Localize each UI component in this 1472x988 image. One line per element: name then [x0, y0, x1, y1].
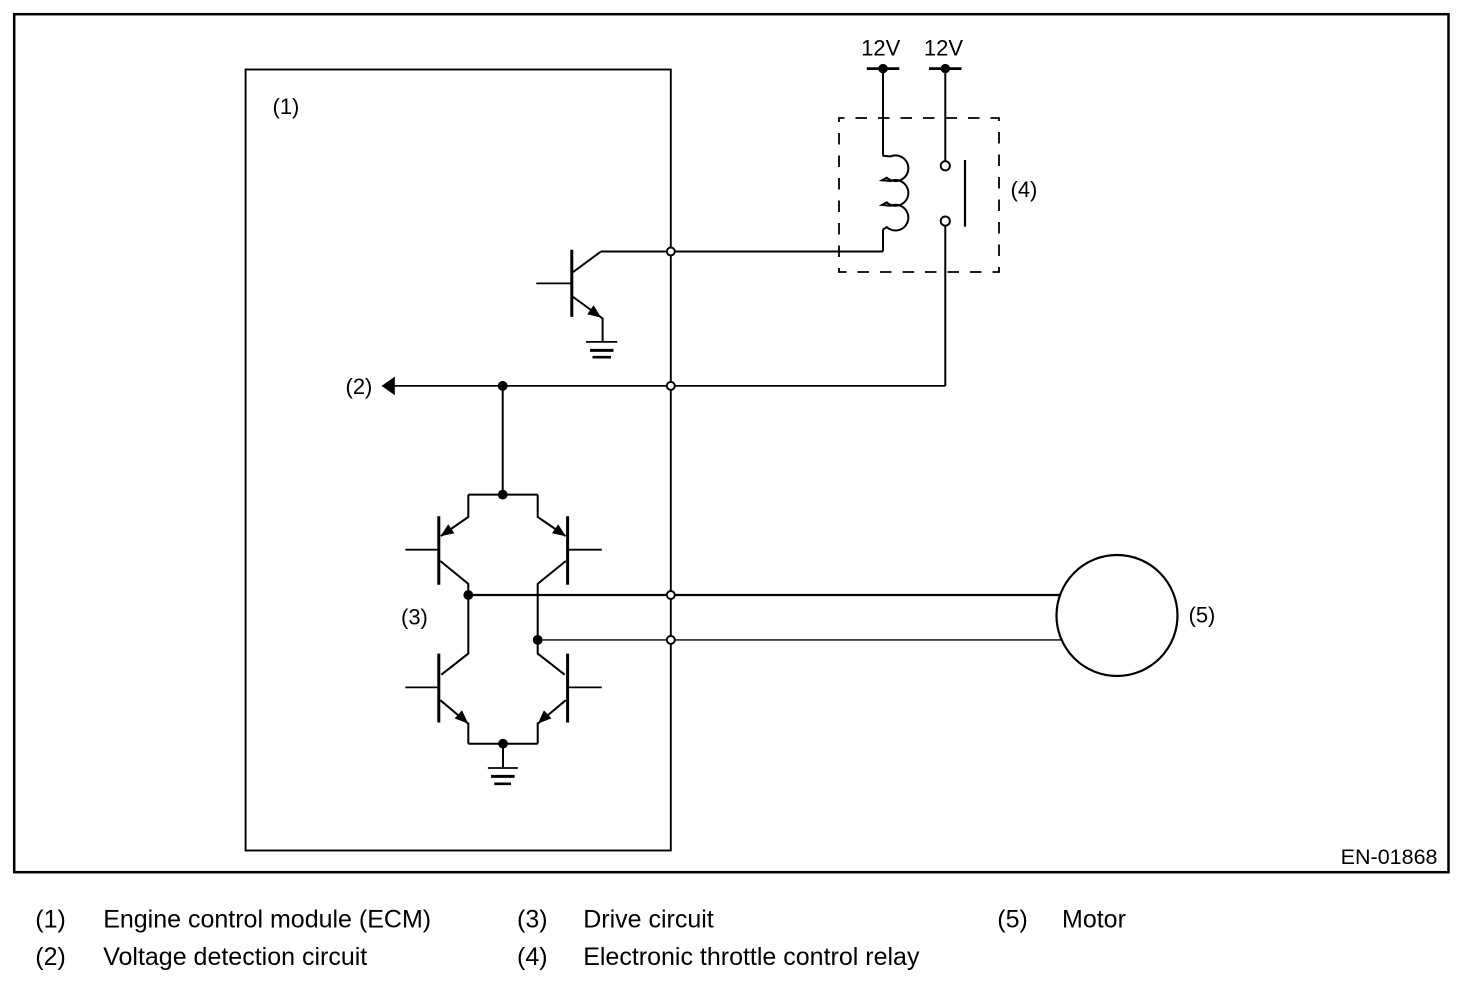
Q3 base wire [569, 549, 602, 551]
ground G2 line 2 [491, 775, 515, 778]
wire (2) horizontal [382, 385, 945, 387]
svg-text:Motor: Motor [1062, 906, 1126, 934]
12V terminal dot B [941, 64, 950, 73]
svg-text:(2): (2) [346, 374, 373, 399]
svg-text:(5): (5) [1189, 603, 1216, 628]
relay switch contact circle bottom [941, 217, 950, 226]
12V terminal dot A [878, 64, 887, 73]
relay switch blade [964, 160, 966, 227]
12V terminal bar A [867, 67, 900, 70]
node circle motor wire 1 on ECM edge [667, 591, 675, 599]
Q2 collector wire [440, 561, 468, 595]
Q5 collector wire [538, 640, 565, 675]
ground G1 line 3 [593, 356, 612, 359]
relay coil L1 [882, 155, 908, 230]
Q5 emitter diagonal [538, 700, 566, 723]
svg-text:(4): (4) [517, 943, 548, 971]
Q1 base wire [536, 282, 570, 284]
12V terminal bar B [929, 67, 962, 70]
Q4 collector wire [441, 595, 468, 675]
motor M circle [1057, 555, 1178, 676]
Q3 emitter wire [538, 495, 566, 536]
Q2 base wire [405, 549, 437, 551]
svg-text:(1): (1) [35, 906, 66, 934]
node circle (2) on ECM edge [667, 382, 675, 390]
node circle motor wire 2 on ECM edge [667, 636, 675, 644]
Q5 bar [566, 654, 569, 723]
junction dot left output [463, 590, 473, 600]
Q3 bar [566, 516, 569, 584]
node circle relay coil on ECM edge [667, 248, 675, 256]
Q1 emitter wire to ground [602, 318, 604, 342]
ECM box (1) [246, 70, 671, 851]
Q3 collector wire [538, 561, 566, 640]
Q4 emitter diagonal [440, 700, 468, 723]
svg-text:(1): (1) [273, 94, 300, 119]
wire coil to transistor collector [601, 251, 883, 253]
transistor Q1 bar [570, 250, 573, 317]
Q1 emitter diagonal [572, 296, 603, 319]
junction dot right output [533, 635, 543, 645]
H-bridge bottom rail [468, 743, 537, 745]
Q2 bar [437, 516, 440, 584]
svg-text:EN-01868: EN-01868 [1341, 845, 1438, 869]
arrow (2) [382, 377, 395, 396]
Q5 base wire [569, 686, 602, 688]
svg-text:12V: 12V [924, 36, 963, 61]
svg-text:Voltage detection circuit: Voltage detection circuit [103, 943, 367, 971]
wire 12V A to relay coil [882, 69, 884, 156]
svg-text:(5): (5) [997, 906, 1028, 934]
svg-text:(3): (3) [401, 605, 428, 630]
svg-text:Drive circuit: Drive circuit [583, 906, 714, 934]
ground G2 stem [502, 744, 504, 768]
Q4 emitter arrow [455, 710, 469, 723]
ground G2 line 3 [494, 782, 511, 785]
Q2 emitter arrow [441, 524, 455, 536]
junction dot on (2) wire [498, 381, 508, 391]
svg-text:(3): (3) [517, 906, 548, 934]
ground G1 line 1 [586, 341, 617, 343]
svg-text:(2): (2) [35, 943, 66, 971]
Q3 emitter arrow [552, 524, 566, 536]
junction dot top rail [498, 490, 508, 500]
motor wire 1 [468, 594, 1110, 596]
svg-text:Electronic throttle control re: Electronic throttle control relay [583, 943, 920, 971]
relay box (4) dashed [839, 118, 999, 272]
wire junction to H-bridge [502, 386, 504, 495]
wire coil bottom [882, 229, 884, 251]
svg-text:(4): (4) [1011, 177, 1038, 202]
junction dot bottom rail [498, 739, 508, 749]
Q1 collector diagonal [572, 252, 601, 274]
Q4 base wire [405, 686, 437, 688]
H-bridge top rail [468, 494, 537, 496]
ground G1 line 2 [590, 349, 614, 352]
Q2 emitter wire [441, 495, 468, 536]
motor wire 2 [538, 639, 1110, 641]
Q5 emitter arrow [538, 710, 552, 723]
Q1 emitter arrow [587, 305, 601, 317]
svg-text:12V: 12V [861, 36, 900, 61]
relay switch contact circle top [941, 161, 950, 170]
Q4 emitter wire down [467, 723, 469, 744]
wire 12V B to relay switch [944, 69, 946, 161]
Q5 emitter wire down [537, 723, 539, 744]
wire relay switch to node line [944, 226, 946, 386]
svg-text:Engine control module (ECM): Engine control module (ECM) [103, 906, 431, 934]
ground G2 line 1 [488, 767, 518, 769]
Q4 bar [437, 654, 440, 723]
